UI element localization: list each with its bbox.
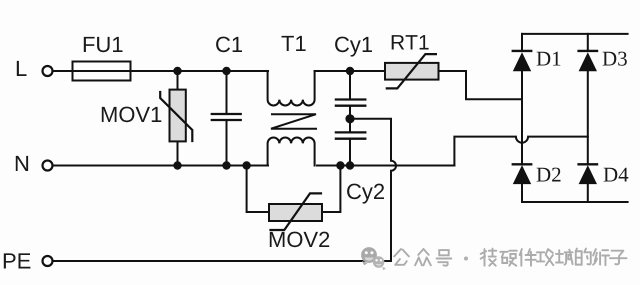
wire L line from T1 to RT1	[315, 70, 385, 72]
node junction dot Cy midpoint	[345, 114, 354, 123]
wire Cy midpoint to PE with crossover hop	[53, 119, 396, 261]
wire L line from terminal through fuse to T1	[53, 70, 268, 72]
wire bridge bottom rail	[522, 201, 628, 203]
varistor MOV1	[160, 90, 192, 142]
wire bridge top rail	[522, 33, 628, 35]
wire N line from terminal to T1	[53, 165, 268, 167]
label L	[17, 61, 27, 76]
label Cy2	[347, 184, 384, 204]
node junction dot MOV2 left	[242, 161, 250, 169]
wire N riser to bridge AC2 with crossover dip	[454, 137, 587, 166]
inductor T1 top winding	[268, 71, 315, 105]
wire bridge left column	[521, 34, 523, 202]
label D2	[537, 168, 561, 182]
varistor MOV2	[247, 166, 341, 231]
T1 core Z symbol	[271, 114, 316, 129]
watermark text drawn as strokes	[394, 249, 626, 266]
fuse FU1	[73, 62, 131, 81]
diode D1	[513, 51, 531, 71]
label C1	[216, 37, 242, 53]
label PE	[4, 253, 31, 268]
label RT1	[392, 35, 429, 49]
label Cy1	[335, 37, 372, 57]
inductor T1 bottom winding	[268, 138, 315, 166]
watermark wechat icon	[361, 247, 386, 270]
wire bridge right column	[587, 34, 589, 202]
diode D4	[579, 164, 597, 184]
label N	[16, 156, 28, 171]
label MOV2	[270, 232, 329, 248]
label D1	[537, 52, 561, 66]
node L terminal	[43, 66, 53, 76]
node junction dot Cy2 bottom	[346, 161, 354, 169]
node junction dot Cy1 top	[346, 67, 354, 75]
node PE terminal	[43, 256, 53, 266]
thermistor RT1	[385, 54, 439, 88]
node junction dot C1 bottom	[222, 161, 230, 169]
label FU1	[84, 37, 123, 52]
capacitor Cy1	[336, 71, 365, 131]
node junction dot MOV1 top	[173, 67, 181, 75]
capacitor C1	[212, 71, 241, 166]
node junction dot C1 top	[222, 67, 230, 75]
diode D2	[513, 164, 531, 184]
wire MOV1 branch	[177, 71, 179, 166]
label MOV1	[102, 107, 162, 123]
node junction dot MOV1 bottom	[173, 161, 181, 169]
label D4	[604, 168, 629, 182]
node junction dot MOV2 right	[336, 161, 344, 169]
label T1	[282, 36, 306, 51]
node N terminal	[43, 161, 53, 171]
diode D3	[579, 51, 597, 71]
wire N line from T1 to bridge riser	[317, 165, 454, 167]
label D3	[603, 52, 627, 66]
wire RT1 to bridge AC1	[439, 71, 522, 99]
capacitor Cy2	[336, 132, 365, 165]
